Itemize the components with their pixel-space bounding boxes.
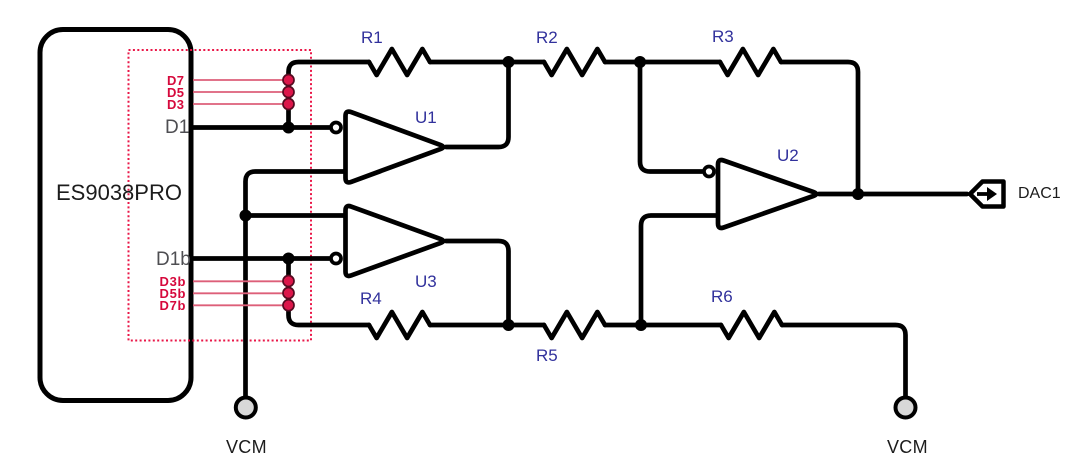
wire R5 to R6 xyxy=(605,323,721,328)
label U3 xyxy=(415,272,437,292)
wire U1 output up to node A xyxy=(446,62,509,147)
label R3 xyxy=(712,27,734,47)
red node dot D5 xyxy=(283,87,294,98)
pin line D7b xyxy=(193,304,283,306)
op-amp U3 xyxy=(346,206,444,276)
resistor R1 xyxy=(369,49,430,75)
junction node D xyxy=(635,319,647,331)
wire node D up to U2 non-inverting input xyxy=(641,216,718,326)
wire D1 pin to U1 inverting input xyxy=(192,125,329,130)
junction U2 output xyxy=(852,188,864,200)
label DAC1 xyxy=(1018,185,1061,203)
junction node A xyxy=(503,56,515,68)
pin label D7b xyxy=(160,298,187,313)
U2 input bubble xyxy=(704,167,714,177)
wire U3 output down to node C xyxy=(446,241,509,325)
label VCM left xyxy=(226,437,267,458)
label R5 xyxy=(536,346,558,366)
op-amp U1 xyxy=(346,112,444,183)
wire R1 to R2 xyxy=(430,60,544,65)
red node dot D3 xyxy=(283,99,294,110)
resistor R2 xyxy=(544,49,605,75)
red node dot D3b xyxy=(283,276,294,287)
U1 input bubble xyxy=(331,123,341,133)
wire D1b branch down to R4 bottom rail xyxy=(289,259,370,326)
wire D1 branch up to R1 top rail xyxy=(289,62,370,128)
resistor R3 xyxy=(720,49,781,75)
resistor R4 xyxy=(369,312,430,338)
pin label D7 xyxy=(167,73,184,88)
pin label D5 xyxy=(167,85,184,100)
red node dot D7 xyxy=(283,75,294,86)
wire VCM riser to U1 non-inverting input xyxy=(246,172,346,397)
junction VCM left xyxy=(240,210,252,222)
pin label D3b xyxy=(160,274,187,289)
label VCM right xyxy=(887,437,928,458)
junction D1 xyxy=(283,122,295,134)
wire U2 output to DAC1 xyxy=(819,192,967,197)
pin label D1 xyxy=(165,117,189,139)
label U1 xyxy=(415,108,437,128)
resistor R6 xyxy=(721,312,782,338)
pin line D5b xyxy=(193,292,283,294)
pin line D7 xyxy=(193,79,283,81)
wire R3 feedback down to U2 output node xyxy=(781,62,858,194)
pin line D3b xyxy=(193,280,283,282)
red node dot D7b xyxy=(283,300,294,311)
pin label D5b xyxy=(160,286,187,301)
wire R2 to R3 xyxy=(605,60,720,65)
VCM terminal right xyxy=(896,398,916,418)
wire R4 to R5 xyxy=(430,323,544,328)
label U2 xyxy=(777,146,799,166)
junction node B xyxy=(634,56,646,68)
wire node B down to U2 inverting input xyxy=(640,62,702,172)
red dotted selection box xyxy=(129,50,312,341)
junction node C xyxy=(503,319,515,331)
VCM terminal left xyxy=(236,398,256,418)
label R4 xyxy=(360,289,382,309)
pin label D1b xyxy=(156,249,191,271)
pin label D3 xyxy=(167,97,184,112)
red node dot D5b xyxy=(283,288,294,299)
pin line D3 xyxy=(193,103,283,105)
op-amp U2 xyxy=(718,160,816,228)
port DAC1 xyxy=(970,182,1004,207)
wire D1b pin to U3 inverting input xyxy=(192,256,329,261)
U3 input bubble xyxy=(331,254,341,264)
resistor R5 xyxy=(544,312,605,338)
wire VCM node to U3 non-inverting input xyxy=(246,213,346,218)
label ES9038PRO xyxy=(56,180,182,206)
junction D1b xyxy=(283,253,295,265)
label R1 xyxy=(361,28,383,48)
wire R6 to VCM right xyxy=(782,325,906,397)
IC body ES9038PRO xyxy=(40,30,191,401)
label R2 xyxy=(536,28,558,48)
port DAC1 arrow xyxy=(977,192,989,196)
pin line D5 xyxy=(193,91,283,93)
label R6 xyxy=(711,287,733,307)
